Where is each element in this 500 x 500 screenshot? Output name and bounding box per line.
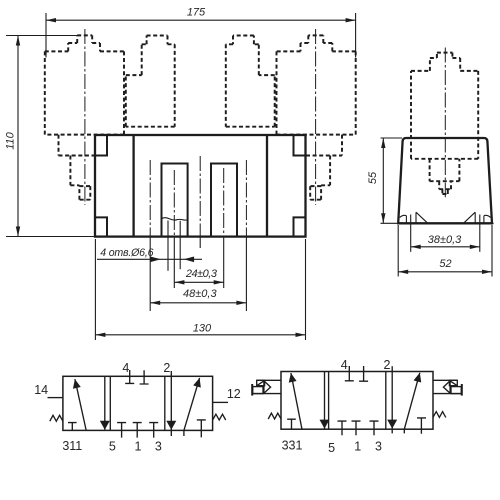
- left foot groove: [400, 212, 428, 223]
- svg-text:48±0,3: 48±0,3: [183, 288, 217, 300]
- svg-text:52: 52: [439, 258, 451, 270]
- valve 311 flow line A with down arrow: [100, 376, 110, 430]
- valve 311 left section flow arrow: [73, 379, 86, 430]
- left slot: [162, 164, 188, 237]
- solenoid tower T4 (front view, right, hidden outline): [277, 35, 356, 134]
- side view bottom line: [381, 222, 494, 224]
- valve 311 left section blocked port: [68, 423, 77, 431]
- solenoid tower T1 (front view, left, hidden outline): [45, 35, 124, 134]
- valve 331 left solenoid pilot actuator: [252, 380, 281, 395]
- dimension 175: [46, 7, 356, 58]
- svg-text:24±0,3: 24±0,3: [185, 268, 218, 280]
- svg-text:311: 311: [62, 439, 82, 453]
- side view hidden steps: [430, 159, 460, 194]
- body corner notch bottom-right: [294, 217, 305, 236]
- valve 331 right section blocked port: [417, 418, 426, 434]
- valve 311 pilot line 14: [48, 397, 63, 399]
- dimension 110: [5, 36, 95, 237]
- svg-text:3: 3: [155, 439, 162, 453]
- valve 311 right section flow arrow: [184, 378, 201, 436]
- valve 311 top stub port 2: [140, 370, 149, 384]
- hidden staircase below right tower: [306, 135, 342, 200]
- solenoid tower T2 (front view, mid-left, hidden outline): [126, 36, 175, 127]
- valve 311 symbol body: [63, 376, 213, 430]
- dimension 55: [367, 138, 402, 223]
- valve 331 spring right: [433, 412, 446, 418]
- centerline right hole: [245, 160, 247, 238]
- dimension 52: [398, 225, 492, 277]
- valve 311 spring right: [213, 414, 226, 420]
- valve 331 bottom stub port 1: [352, 421, 361, 435]
- valve 311 right section blocked port: [197, 420, 206, 438]
- dimension 38±0,3: [411, 223, 480, 252]
- centerline right slot: [223, 168, 225, 238]
- valve 331 bottom stub port 3: [370, 421, 379, 435]
- centerline side view: [444, 48, 446, 198]
- svg-text:4: 4: [122, 361, 129, 375]
- valve 311 spring left: [50, 415, 63, 421]
- hidden staircase below left tower: [59, 135, 95, 200]
- centerline right tower: [315, 29, 317, 205]
- valve 311 bottom stub port 1: [133, 423, 142, 438]
- valve 311 top stub port 4: [125, 370, 134, 383]
- svg-text:175: 175: [187, 7, 206, 19]
- svg-text:4: 4: [341, 358, 348, 372]
- valve 331 divider left: [328, 372, 330, 430]
- valve 331 left section flow arrow: [289, 373, 302, 429]
- svg-text:4 отв.Ø6,6: 4 отв.Ø6,6: [100, 247, 153, 259]
- svg-text:130: 130: [193, 323, 212, 335]
- valve 311 bottom stub port 5: [117, 423, 126, 438]
- valve 311 divider left: [109, 376, 111, 430]
- valve 311 pilot line 12: [213, 401, 228, 403]
- dimension 130: [95, 239, 305, 340]
- valve 311 bottom stub port 3: [149, 423, 158, 438]
- svg-text:3: 3: [375, 440, 382, 454]
- break line in left slot: [162, 218, 188, 221]
- centerline left slot: [173, 170, 175, 238]
- svg-text:1: 1: [354, 440, 361, 454]
- valve body front view: [95, 135, 306, 237]
- side view solenoid (hidden outline): [411, 53, 478, 159]
- valve 331 left section blocked port: [287, 419, 296, 429]
- svg-text:14: 14: [34, 383, 48, 397]
- svg-text:2: 2: [163, 361, 170, 375]
- valve 331 symbol body: [281, 372, 433, 430]
- valve 331 flow line B (port 2) with down arrow: [387, 366, 397, 433]
- body inner wall left: [132, 135, 134, 237]
- valve 331 bottom stub port 5: [338, 421, 347, 435]
- centerline left hole: [149, 160, 151, 238]
- svg-text:38±0,3: 38±0,3: [428, 234, 462, 246]
- valve 311 divider right: [164, 376, 166, 430]
- leader 4 holes Ø6,6: [97, 247, 202, 262]
- svg-text:110: 110: [5, 131, 17, 149]
- valve 331 top stub port 4: [345, 366, 354, 381]
- body corner notch bottom-left: [96, 217, 107, 236]
- centerline left tower: [84, 29, 86, 205]
- valve 331 top stub port 2: [359, 366, 368, 381]
- body inner wall right: [266, 135, 268, 237]
- body corner notch top-right: [294, 136, 305, 156]
- dimension 48±0,3: [150, 288, 246, 305]
- svg-text:1: 1: [135, 439, 142, 453]
- svg-text:5: 5: [109, 440, 116, 454]
- valve 331 spring left: [268, 413, 281, 419]
- svg-text:55: 55: [367, 171, 379, 184]
- valve 331 flow line A with down arrow: [320, 372, 330, 429]
- svg-text:12: 12: [227, 387, 241, 401]
- side view body: [398, 138, 492, 223]
- dimension 24±0,3: [174, 268, 223, 284]
- hole wall left (Ø6,6): [167, 221, 169, 271]
- right slot: [211, 164, 237, 237]
- hole wall right (Ø6,6): [179, 221, 181, 269]
- body corner notch top-left: [96, 136, 107, 156]
- valve 331 right solenoid pilot actuator: [433, 380, 462, 395]
- solenoid tower T3 (front view, mid-right, hidden outline): [226, 36, 275, 127]
- svg-text:5: 5: [328, 441, 335, 455]
- valve 331 divider right: [385, 372, 387, 430]
- svg-text:2: 2: [384, 358, 391, 372]
- right foot groove: [463, 212, 490, 223]
- svg-text:331: 331: [282, 438, 303, 452]
- centerline body middle: [199, 156, 201, 238]
- valve 331 right section flow arrow: [404, 373, 421, 434]
- valve 311 flow line B (port 2) with down arrow: [166, 371, 176, 436]
